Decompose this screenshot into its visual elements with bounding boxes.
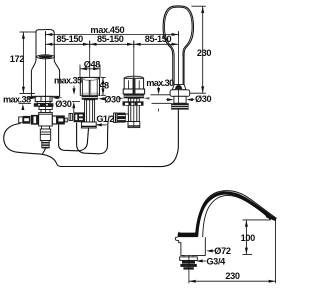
valve V1 hose connector dark ribs — [42, 142, 49, 144]
svg-text:Ø30: Ø30 — [195, 94, 212, 104]
svg-text:100: 100 — [241, 233, 256, 243]
hose from valve V1 left port to handshower base — [4, 110, 179, 167]
svg-text:172: 172 — [10, 54, 25, 64]
arrow max.38 right-pointing — [30, 96, 37, 99]
arrow 230 spout left — [189, 280, 196, 283]
arrow max.450 right — [172, 33, 179, 36]
arrow escutcheon left-pointing H1 — [52, 96, 59, 99]
arrows 85-150 at H2 tick — [83, 43, 90, 46]
handle H2 body — [80, 77, 99, 95]
arrows H3 flange wings — [119, 97, 125, 100]
arrows Ø30 handshower — [167, 98, 174, 101]
valve V1 right hex nut dark — [57, 115, 65, 124]
arrow 100 top — [245, 220, 248, 227]
dimension Ø48 line — [80, 68, 100, 70]
handle H3 collar — [123, 89, 144, 94]
valve V1 tailpiece block — [40, 129, 50, 141]
axis line handshower — [177, 31, 179, 110]
ticks of 85-150 chain — [89, 41, 91, 48]
svg-text:Ø30: Ø30 — [104, 94, 121, 104]
arrow G3/4 left-pointing — [196, 260, 203, 263]
valve V3 port nut dark — [118, 113, 126, 123]
svg-text:230: 230 — [197, 48, 212, 58]
hose from valve V2 port to valve V3 stub — [77, 122, 108, 154]
valve V1 left stub dark block — [23, 116, 31, 124]
handle H1 flange disc — [34, 103, 54, 107]
dimension 85-150 chain line — [46, 43, 179, 45]
svg-text:Ø72: Ø72 — [214, 246, 231, 256]
handshower escutcheon — [170, 90, 190, 97]
leader G3/4 arrow tail — [202, 260, 207, 262]
arrow Ø30 V1 up-pointing — [72, 102, 75, 109]
axis line handle H2 — [89, 41, 91, 122]
arrow Ø72 left-pointing — [206, 249, 213, 252]
valve V1 right arm cylinder — [52, 116, 56, 124]
svg-text:230: 230 — [225, 271, 240, 281]
arrow 230 spout right — [269, 280, 276, 283]
valve V1 right stub — [65, 118, 68, 122]
arrow Ø30 H2 left-pointing — [98, 97, 105, 100]
valve V2 left port nut dark — [74, 112, 85, 122]
leader max.30 arrow shaft — [158, 87, 160, 89]
spout top dark band — [178, 231, 197, 237]
svg-text:85-150: 85-150 — [56, 34, 83, 44]
handshower mounting cylinder — [174, 96, 186, 103]
leader max.38 arrow tail — [28, 97, 32, 99]
valve V1 hose connector tip — [42, 141, 49, 148]
arrow max.38 up-pointing below — [21, 104, 24, 110]
arrow 100 bottom — [245, 248, 248, 255]
valve V3 stub cap — [114, 113, 116, 122]
spout arc dark band — [197, 193, 271, 237]
handshower bulb outer outline — [163, 6, 193, 84]
spout tip — [266, 214, 277, 221]
dimension 48 line and ticks — [102, 77, 104, 95]
leader Ø30 handshower right — [190, 99, 194, 101]
tick above max.450 at H1 — [45, 31, 47, 36]
valve V3 shank double wall — [128, 98, 139, 121]
arrow Ø48 left — [80, 67, 87, 70]
svg-text:85-150: 85-150 — [145, 34, 172, 44]
handle H1 escutcheon — [35, 96, 52, 101]
dimension max.450 line — [46, 34, 179, 36]
valve V3 collar dark — [123, 101, 144, 105]
arrow 172 top — [22, 32, 25, 39]
hose from valve V1 tailpiece merging into bottom run — [42, 148, 45, 153]
dimension 230 spout — [189, 280, 276, 282]
valve V1 central body — [39, 113, 53, 127]
handle H3 body — [124, 78, 143, 89]
arrow max.450 left — [46, 33, 53, 36]
tick Ø30 valve V1 — [72, 101, 80, 103]
spout arc inner line — [203, 195, 271, 237]
arrow max.35 down-pointing — [73, 88, 76, 95]
arrows 85-150 at H3 tick — [127, 43, 134, 46]
arrow Ø48 right — [93, 67, 100, 70]
valve V1 left tip nipple — [19, 117, 23, 123]
svg-text:85-150: 85-150 — [97, 34, 124, 44]
dimension 172 line — [22, 32, 24, 94]
spout flange — [184, 255, 193, 257]
valve V2 shank double wall — [85, 100, 95, 122]
arrow G1/2 left-pointing — [95, 123, 102, 126]
spout body white — [175, 222, 205, 255]
valve V1 left hex nut dark — [31, 115, 39, 125]
tick max.30 lower — [152, 102, 172, 104]
handshower bulb inner outline — [164, 7, 192, 56]
spout body outline — [175, 237, 205, 255]
leader Ø30 handshower left — [166, 99, 169, 101]
valve V1 group — [19, 107, 68, 148]
dimension 100 spout — [245, 220, 247, 255]
leader max.30 up-arrow shaft — [158, 109, 160, 112]
leader H1 escutcheon arrow tail — [58, 97, 62, 99]
valve V1 shank — [39, 107, 52, 110]
leader max.35 arrow shaft — [73, 86, 75, 90]
dimension 230 handshower line — [202, 6, 204, 93]
svg-text:G1/2: G1/2 — [96, 114, 114, 124]
arrows dimension 48 — [102, 78, 105, 85]
svg-text:Ø30: Ø30 — [55, 99, 72, 109]
tick max.38 lower — [19, 103, 32, 105]
svg-text:max.35: max.35 — [54, 75, 82, 85]
handle H3 top rim — [124, 76, 143, 80]
handle H2 top rim — [81, 77, 100, 80]
leader Ø72 arrow tail — [212, 250, 215, 252]
hose from valve V1 right port to valve V2 bottom — [59, 125, 89, 151]
svg-text:Ø48: Ø48 — [84, 60, 101, 70]
handle H1 tall mixer handle body — [31, 30, 59, 97]
handle H1 chrome lens band — [37, 55, 55, 59]
svg-text:48: 48 — [99, 80, 109, 90]
arrow 172 bottom — [22, 87, 25, 94]
valve V1 tailpiece neck — [42, 126, 50, 129]
handle H2 flange — [82, 95, 98, 99]
spout locknut stack — [182, 260, 195, 263]
svg-text:max.30: max.30 — [146, 78, 174, 88]
handshower shaft inner lines — [173, 56, 175, 85]
valve V3 bottom piece — [128, 122, 140, 128]
svg-text:G3/4: G3/4 — [206, 256, 226, 266]
handshower locknut — [171, 103, 189, 109]
valve V2 left stub cap — [69, 113, 72, 120]
valve V2 bottom piece — [81, 122, 96, 128]
axis line handle H1 — [45, 31, 47, 112]
spout axis line — [188, 255, 190, 283]
dimension Ø48 extension ticks — [79, 65, 81, 77]
axis line handle H3 — [133, 41, 135, 128]
arrow 85-150 far left — [46, 43, 53, 46]
tick deck line at handshower — [151, 94, 171, 96]
arrow max.30 down-pointing — [157, 88, 160, 95]
handle H3 flange — [124, 94, 144, 98]
arrow 85-150 far right — [172, 43, 179, 46]
handshower cone base — [172, 85, 186, 90]
spout arc outer line — [197, 191, 275, 237]
arrowheads — [21, 7, 275, 283]
arrow 230 shower bottom — [201, 86, 204, 93]
valve V3 side cylinder — [125, 114, 128, 122]
svg-text:max.38: max.38 — [3, 95, 31, 105]
handshower cone dark insert — [175, 85, 182, 89]
arrow 230 shower top — [201, 7, 204, 14]
